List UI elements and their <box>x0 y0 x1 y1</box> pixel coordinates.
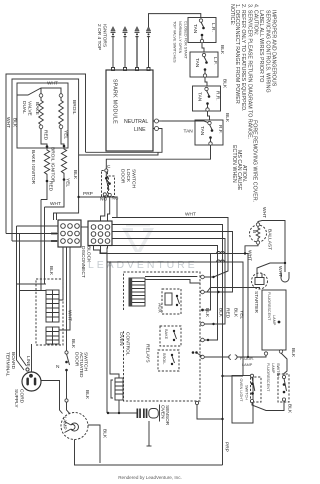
svg-text:BROIL: BROIL <box>71 100 77 115</box>
svg-text:R.F.: R.F. <box>217 125 223 134</box>
svg-text:YEL: YEL <box>63 130 69 139</box>
relay AUX <box>162 289 181 314</box>
wire conductor 2 to board <box>20 290 47 292</box>
wire valve to ignitor <box>41 129 47 147</box>
wire block B to fluor lamp bottom <box>94 246 249 358</box>
svg-text:DISCONNECT: DISCONNECT <box>80 246 86 278</box>
svg-text:OVEN LIGHT: OVEN LIGHT <box>239 379 243 403</box>
svg-text:ATION.: ATION. <box>241 165 247 182</box>
terminal board connector 2 <box>46 327 59 344</box>
svg-text:IMPROPER AND DANGEROUS: IMPROPER AND DANGEROUS <box>271 10 277 87</box>
svg-text:RED: RED <box>225 308 231 319</box>
svg-text:TAN: TAN <box>194 58 200 68</box>
svg-text:PRP: PRP <box>83 191 93 197</box>
svg-text:1. DISCONNECT RANGE FROM POWER: 1. DISCONNECT RANGE FROM POWER <box>234 4 240 104</box>
node tap 1 <box>212 276 214 278</box>
svg-text:WHT: WHT <box>261 207 267 218</box>
resistor bake ignitor <box>44 147 49 180</box>
switch R.F. <box>195 120 223 145</box>
node bake ignitor top <box>46 145 49 148</box>
wire ignitor electrode 3 <box>136 36 138 68</box>
wire WHT left vertical <box>6 74 86 234</box>
oven control dashed box <box>124 272 201 401</box>
svg-text:2 OR 4 TOP: 2 OR 4 TOP <box>96 24 102 50</box>
svg-text:BROIL: BROIL <box>162 353 166 364</box>
svg-text:WHT: WHT <box>47 81 58 87</box>
svg-text:4. CAUTION:: 4. CAUTION: <box>253 4 259 35</box>
svg-text:RELAYS: RELAYS <box>145 344 151 363</box>
svg-text:Rendered by LeadVenture, Inc.: Rendered by LeadVenture, Inc. <box>118 475 182 480</box>
wire door lock NO to block B <box>101 196 105 221</box>
svg-text:LAMP: LAMP <box>242 363 253 367</box>
switch L.R. <box>188 18 216 43</box>
svg-text:TAN: TAN <box>192 24 198 34</box>
svg-text:L.F.: L.F. <box>212 57 218 65</box>
svg-text:L.R.: L.R. <box>210 23 216 32</box>
svg-text:LINE: LINE <box>25 356 31 367</box>
wire connector to lamp terminal <box>237 355 267 357</box>
wire bus 1 to oven control terminal 1 <box>112 218 228 278</box>
svg-text:IGNITORS: IGNITORS <box>101 24 107 47</box>
spark module box <box>106 70 153 151</box>
svg-text:WHT: WHT <box>185 212 196 218</box>
node tap 3 <box>212 323 214 325</box>
wire line to plug <box>31 344 33 372</box>
svg-text:BLK: BLK <box>84 390 90 400</box>
svg-text:WHT: WHT <box>50 201 61 207</box>
node bake ignitor bottom <box>46 180 49 183</box>
svg-text:BAKE IGNITOR: BAKE IGNITOR <box>30 150 36 185</box>
svg-text:DOOR: DOOR <box>120 169 126 184</box>
wire sensor left <box>108 412 137 414</box>
relay BROIL <box>158 350 179 371</box>
node PRP tap <box>221 375 223 377</box>
terminal line <box>154 128 163 130</box>
wire spark to RF <box>162 121 208 123</box>
wire oven control bottom to switch <box>195 401 198 404</box>
ground symbol <box>26 368 29 371</box>
svg-text:3. SERVICER PLEASE RETURN DIAG: 3. SERVICER PLEASE RETURN DIAGRAM TO RAN… <box>247 4 253 139</box>
wire bus 5 to terminal 5 <box>112 246 218 341</box>
svg-text:BLK: BLK <box>102 429 108 439</box>
terminal oven control 3 <box>201 309 204 312</box>
wire conductor 1 to board <box>17 283 47 285</box>
svg-text:NORMALLY OPEN: NORMALLY OPEN <box>178 21 182 54</box>
svg-text:BLK: BLK <box>233 308 239 318</box>
wires under spark module <box>86 129 163 153</box>
wire PRP to bus <box>79 197 117 218</box>
node junction y357 <box>247 356 249 358</box>
wire broil ignitor to board <box>45 181 65 208</box>
svg-text:SENSOR: SENSOR <box>164 405 170 426</box>
inline connector pair <box>229 355 237 360</box>
resistor broil valve coil <box>59 97 64 125</box>
svg-text:FORE REMOVING WIRE COVER.: FORE REMOVING WIRE COVER. <box>252 120 258 202</box>
terminal oven control 4 <box>201 322 205 326</box>
svg-text:TAN: TAN <box>184 129 194 135</box>
svg-text:BLOCK: BLOCK <box>86 246 92 263</box>
svg-text:2. REFER ONLY TO FEATURES EQUI: 2. REFER ONLY TO FEATURES EQUIPPED. <box>240 4 246 112</box>
oven lamp <box>61 413 88 440</box>
svg-text:BLK: BLK <box>224 113 230 123</box>
wire block A to B link <box>81 226 88 228</box>
lamp top holder <box>281 272 289 282</box>
terminal neutral <box>154 120 163 122</box>
wire door lock top <box>106 159 160 169</box>
fluorescent lamp tube <box>262 290 286 350</box>
wire bus tap to terminal 3 <box>205 254 211 311</box>
svg-text:SWITCH: SWITCH <box>245 385 249 400</box>
wire RF bottom down <box>160 145 211 159</box>
svg-text:BALLAST: BALLAST <box>267 229 273 250</box>
terminal sq 3 <box>136 68 139 71</box>
svg-text:BLK: BLK <box>48 266 54 276</box>
svg-text:LOCK: LOCK <box>125 169 131 183</box>
svg-text:TERMINAL: TERMINAL <box>5 352 11 377</box>
wire bake ignitor to board <box>41 182 47 200</box>
svg-text:FLUORESCENT: FLUORESCENT <box>267 292 271 321</box>
ballast <box>250 223 273 250</box>
terminal board connector 1 <box>46 290 59 322</box>
wire BLK left vertical <box>12 79 79 241</box>
door actuated switch <box>65 339 90 402</box>
svg-text:WHT: WHT <box>5 117 11 128</box>
wire ballast bottom <box>245 244 258 253</box>
node tap 2 <box>217 291 219 293</box>
svg-text:DUAL: DUAL <box>21 101 27 114</box>
door lock switch <box>100 164 119 203</box>
terminal sq 1 <box>112 68 115 71</box>
watermark logo <box>122 224 154 252</box>
svg-text:SWITCH: SWITCH <box>131 169 137 188</box>
svg-text:BLK: BLK <box>219 45 225 55</box>
ignitor tip 4 <box>146 27 150 32</box>
pin connector P1 <box>129 278 145 306</box>
supply cord plug <box>22 372 41 391</box>
wire bus 3 to terminal 2 <box>112 232 233 293</box>
terminal board dashed <box>36 279 63 345</box>
ignitor tip 3 <box>135 27 139 32</box>
svg-text:SWITCH: SWITCH <box>276 363 280 378</box>
wire ballast top <box>258 221 285 273</box>
crimp marks <box>51 233 57 235</box>
node broil relay contact a <box>192 351 195 354</box>
connector block B <box>81 221 112 246</box>
terminal circle broil valve <box>59 94 63 98</box>
notice text block <box>229 4 277 202</box>
terminal oven control 5 <box>201 338 205 342</box>
wire door lock NC to block B <box>108 197 110 221</box>
node broil ignitor top <box>63 145 66 148</box>
terminal oven control y357 <box>201 355 205 359</box>
node tap 4 <box>207 339 209 341</box>
terminal oven control 2 <box>201 290 205 294</box>
starter <box>252 273 268 313</box>
wires from block B down <box>106 246 109 414</box>
svg-text:LAMP: LAMP <box>62 417 68 430</box>
svg-text:SWITCH: SWITCH <box>83 352 89 371</box>
wire switch bottoms <box>252 401 284 411</box>
node broil relay contact b <box>195 351 198 354</box>
wire BLK branch to block A <box>54 155 79 220</box>
disconnect block <box>58 220 81 247</box>
oven control bottom connector <box>115 378 123 400</box>
wire plug to lamp <box>41 381 63 414</box>
wire block A to board row 2 <box>59 247 70 330</box>
wire oven control to connector <box>205 356 230 358</box>
oven control top inner wires <box>145 276 197 278</box>
svg-text:VALVE: VALVE <box>27 101 33 116</box>
wire WHT to terminal board <box>40 200 42 291</box>
wire PRP tap to switch <box>223 375 244 377</box>
svg-text:NEUTRAL: NEUTRAL <box>124 119 148 125</box>
wire starter top <box>257 263 285 274</box>
svg-text:NC: NC <box>112 196 119 202</box>
node PRP junction <box>77 196 79 198</box>
svg-text:B: B <box>251 230 257 233</box>
wire block A to door switch <box>66 247 68 351</box>
svg-text:BLK: BLK <box>290 348 296 358</box>
svg-text:BROIL IGNITOR: BROIL IGNITOR <box>50 147 56 183</box>
svg-text:BLK: BLK <box>218 308 224 318</box>
svg-text:SERVICING CONTROLS. WIRING: SERVICING CONTROLS. WIRING <box>265 10 271 93</box>
svg-text:N: N <box>56 364 60 370</box>
wire lamp bottom loop <box>75 440 223 466</box>
svg-text:YEL: YEL <box>239 310 245 319</box>
terminal circle bake valve <box>39 94 43 98</box>
resistor broil ignitor <box>61 147 66 179</box>
svg-text:OVEN: OVEN <box>118 332 124 346</box>
svg-text:SUPPLY: SUPPLY <box>13 389 19 408</box>
terminal sq 4 <box>147 68 150 71</box>
wire stub block A top <box>56 213 58 220</box>
wire to starter <box>207 288 260 293</box>
wire switch to lamp <box>67 402 71 414</box>
ignitor tip 2 <box>123 27 127 32</box>
oven sensor <box>137 405 160 422</box>
wire block A to board row 1 <box>59 247 63 300</box>
fluorescent lamp switch <box>266 363 293 414</box>
svg-text:BAKE: BAKE <box>164 329 168 340</box>
svg-text:WHT: WHT <box>247 250 253 261</box>
ignitor tip 1 <box>111 27 115 32</box>
svg-text:SPARK MODULE: SPARK MODULE <box>112 79 118 124</box>
wire valve top bridge <box>17 88 61 95</box>
wire block B to oven light feed <box>101 246 244 377</box>
svg-text:LINE: LINE <box>134 127 146 133</box>
svg-text:WHT: WHT <box>67 310 73 321</box>
svg-text:TAN: TAN <box>199 126 205 136</box>
node broil ignitor bottom <box>63 178 66 181</box>
left wires into blocks <box>17 225 59 227</box>
svg-text:BLK: BLK <box>287 404 293 414</box>
wire ignitor electrode 4 <box>148 36 150 68</box>
svg-text:RED: RED <box>43 130 49 141</box>
wire bus 4 to terminal 4 <box>112 239 225 325</box>
svg-text:BLK: BLK <box>204 308 210 318</box>
wire LR to LF <box>202 43 204 52</box>
svg-text:BLK: BLK <box>72 170 78 180</box>
wire LF to RR <box>205 77 207 86</box>
wire supply conductor 2 <box>20 234 27 366</box>
resistor bake valve coil <box>39 97 44 125</box>
wire supply conductor 1 <box>17 226 25 370</box>
dual valve box <box>17 83 68 148</box>
svg-text:BLK: BLK <box>70 339 76 349</box>
svg-text:STARTER: STARTER <box>253 291 259 313</box>
switch L.F. <box>190 52 218 77</box>
svg-text:BOARD: BOARD <box>10 352 16 370</box>
svg-text:LEADVENTURE: LEADVENTURE <box>88 259 198 271</box>
label BLK lamp <box>88 425 100 463</box>
svg-text:LAMP: LAMP <box>271 363 275 374</box>
wire relay to terminal <box>198 354 203 357</box>
svg-text:BAKE: BAKE <box>34 102 40 115</box>
svg-text:BLK: BLK <box>222 79 228 89</box>
oven light switch <box>232 374 261 423</box>
svg-text:TAN: TAN <box>197 92 203 102</box>
svg-text:CONTROL: CONTROL <box>125 332 131 356</box>
svg-text:TOP VALVE SWITCHES: TOP VALVE SWITCHES <box>173 21 177 63</box>
relay BAKE <box>160 326 181 346</box>
svg-text:RED: RED <box>48 181 54 192</box>
wire hop <box>217 252 225 263</box>
switch R.R. <box>193 86 221 111</box>
svg-text:FLUOR.: FLUOR. <box>240 357 254 361</box>
svg-text:WHT: WHT <box>277 266 283 277</box>
wire RR to RF <box>208 111 210 120</box>
svg-text:R.R.: R.R. <box>215 91 221 101</box>
svg-text:YEL: YEL <box>65 178 71 187</box>
terminal sq 2 <box>124 68 127 71</box>
svg-text:LABEL ALL WIRES PRIOR TO: LABEL ALL WIRES PRIOR TO <box>258 10 264 82</box>
terminal oven control 1 <box>201 275 205 279</box>
lamp bottom terminals <box>264 352 267 355</box>
svg-text:PRP: PRP <box>224 442 230 452</box>
wire ignitor electrode 2 <box>124 36 126 68</box>
svg-text:LAMP: LAMP <box>272 315 276 326</box>
svg-text:FLUORESCENT: FLUORESCENT <box>266 363 270 392</box>
wire bus 2 PRP long run <box>112 225 223 466</box>
svg-text:CLOSED FOR START: CLOSED FOR START <box>184 21 188 60</box>
wire ignitor electrode 1 <box>112 36 114 68</box>
wire spark module to switch cascade <box>149 14 201 27</box>
svg-text:CORD: CORD <box>19 389 25 404</box>
